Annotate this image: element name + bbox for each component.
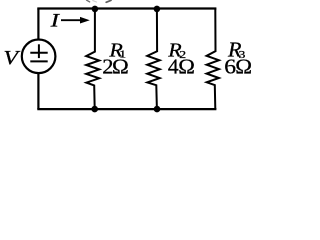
- svg-text:Ω: Ω: [112, 56, 129, 79]
- svg-text:V: V: [3, 46, 20, 69]
- svg-text:Ω: Ω: [235, 56, 252, 79]
- svg-text:Ω: Ω: [178, 56, 195, 79]
